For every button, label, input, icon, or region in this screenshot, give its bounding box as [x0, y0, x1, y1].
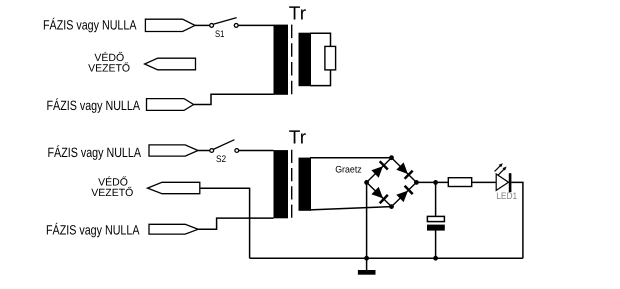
- wire J5 to ground rail: [200, 188, 250, 258]
- junction dot bridge right node: [414, 180, 419, 185]
- connector J5 (protective earth terminal, circuit 2): [148, 182, 200, 193]
- junction dot capacitor top tap: [433, 180, 438, 185]
- junction dot bridge left node: [364, 180, 369, 185]
- LED LED1 triangle: [496, 174, 508, 190]
- wire bridge left node (DC minus) down to ground rail: [366, 182, 368, 258]
- label S1: [215, 29, 224, 40]
- connector J6 (phase/neutral terminal, circuit 2 bottom): [149, 224, 198, 234]
- transformer Tr primary winding (circuit 2): [274, 150, 289, 218]
- capacitor C1 negative plate: [427, 225, 445, 231]
- switch S1: [210, 18, 238, 28]
- resistor R1 (series LED resistor): [448, 178, 471, 187]
- label Graetz (bridge rectifier): [335, 165, 362, 176]
- svg-text:LED1: LED1: [496, 191, 517, 202]
- diode D4 (bottom node to right node): [396, 186, 412, 202]
- svg-text:S2: S2: [216, 154, 226, 165]
- svg-text:VEZETŐ: VEZETŐ: [88, 62, 130, 75]
- label FÁZIS vagy NULLA (circuit 1, bottom phase lead): [47, 98, 141, 113]
- resistor R load (circuit 1 secondary load): [325, 46, 336, 70]
- label Tr (transformer, circuit 1): [289, 3, 307, 24]
- transformer Tr secondary winding (circuit 2): [299, 158, 312, 211]
- diode D2 (top node to right node): [396, 162, 412, 178]
- ground rail (bottom return wire): [250, 257, 523, 259]
- svg-text:Tr: Tr: [289, 128, 307, 149]
- wire J4 to S2: [198, 150, 210, 152]
- svg-text:FÁZIS vagy NULLA: FÁZIS vagy NULLA: [47, 98, 141, 113]
- label Tr (transformer, circuit 2): [289, 128, 307, 149]
- wire J3 to transformer primary bottom: [194, 94, 274, 104]
- svg-text:FÁZIS vagy NULLA: FÁZIS vagy NULLA: [43, 17, 137, 32]
- wire S2 to transformer primary top (circuit 2): [239, 150, 274, 152]
- ground symbol stub: [366, 258, 368, 270]
- junction dot bridge top node: [389, 155, 394, 160]
- wire resistor to LED anode: [472, 181, 497, 183]
- wire bridge right node (DC plus) to resistor: [416, 181, 448, 183]
- label LED1: [496, 191, 517, 202]
- LED LED1 cathode bar: [509, 173, 512, 192]
- wire secondary top to load (circuit 1): [310, 33, 331, 46]
- capacitor C1 positive plate: [427, 216, 444, 221]
- label FÁZIS vagy NULLA (circuit 2, top phase lead): [48, 145, 142, 160]
- bridge diamond edges: [367, 158, 417, 207]
- svg-text:FÁZIS vagy NULLA: FÁZIS vagy NULLA: [46, 223, 140, 238]
- label FÁZIS vagy NULLA (circuit 2, bottom phase lead): [46, 223, 140, 238]
- wire J6 to transformer primary bottom (circuit 2): [198, 218, 273, 229]
- transformer Tr primary winding (circuit 1): [274, 25, 289, 95]
- LED LED1 light emission arrows: [495, 163, 507, 175]
- connector J2 (protective earth terminal, circuit 1, unconnected): [145, 58, 196, 70]
- wire J1 to S1: [195, 24, 210, 26]
- wire LED cathode to right edge and down to ground rail: [511, 182, 523, 258]
- diode D3 (left node to bottom node): [371, 187, 387, 203]
- switch S2: [210, 140, 239, 153]
- svg-text:VEZETŐ: VEZETŐ: [91, 186, 133, 199]
- transformer Tr secondary winding (circuit 1): [299, 33, 312, 86]
- junction dot bridge bottom node: [389, 204, 394, 209]
- wire S1 to transformer primary top: [238, 24, 273, 26]
- svg-text:Tr: Tr: [289, 3, 307, 24]
- connector J4 (phase/neutral terminal, circuit 2 top): [149, 145, 198, 156]
- capacitor C1 bottom lead: [435, 230, 437, 258]
- connector J3 (phase/neutral terminal, circuit 1 bottom): [147, 99, 194, 111]
- wire load to secondary bottom (circuit 1): [310, 70, 331, 86]
- wire secondary top to bridge top node: [310, 157, 392, 159]
- capacitor C1 top lead: [435, 182, 437, 216]
- transformer Tr core (dashed, circuit 2): [291, 150, 293, 219]
- diode D1 (left node to top node): [371, 161, 387, 177]
- junction dot ground rail / earth: [364, 256, 369, 261]
- junction dot ground rail / capacitor bottom: [433, 256, 438, 261]
- connector J1 (phase/neutral terminal, circuit 1 top): [145, 19, 195, 31]
- label FÁZIS vagy NULLA (circuit 1, top phase lead): [43, 17, 137, 32]
- ground symbol bar: [358, 270, 376, 275]
- label S2: [216, 154, 226, 165]
- svg-text:S1: S1: [215, 29, 224, 40]
- svg-text:Graetz: Graetz: [335, 165, 362, 176]
- svg-text:FÁZIS vagy NULLA: FÁZIS vagy NULLA: [48, 145, 142, 160]
- label VÉDŐ VEZETŐ (circuit 2, protective earth): [91, 176, 133, 200]
- wire secondary bottom to bridge bottom node: [310, 207, 392, 210]
- label VÉDŐ VEZETŐ (circuit 1, protective earth): [88, 51, 130, 74]
- transformer Tr core (dashed, circuit 1): [291, 25, 293, 96]
